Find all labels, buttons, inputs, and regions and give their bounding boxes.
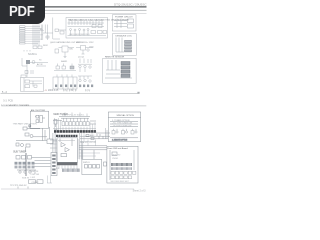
svg-text:- VS TYPE TUNER USE: - VS TYPE TUNER USE (112, 125, 132, 127)
svg-text:AM OSC/TRM: AM OSC/TRM (31, 109, 45, 112)
svg-text:IF OUT: IF OUT (90, 132, 97, 134)
svg-text:C105 103: C105 103 (31, 174, 41, 176)
svg-text:2. REMOTE OPTION: 2. REMOTE OPTION (112, 140, 128, 142)
svg-text:TP1 TP2 GND 5V: TP1 TP2 GND 5V (10, 185, 27, 187)
svg-text:Front OSD unit Board: Front OSD unit Board (108, 147, 129, 150)
svg-text:D601 LED: D601 LED (112, 154, 121, 156)
svg-text:KA431: KA431 (61, 60, 68, 63)
svg-text:T4: T4 (39, 59, 42, 61)
svg-text:DEGAUSS COIL: DEGAUSS COIL (116, 34, 133, 37)
svg-text:S601 S603 S605 S607: S601 S603 S605 S607 (111, 181, 129, 183)
svg-text:2003.3.25: 2003.3.25 (48, 90, 59, 92)
svg-text:Q1 Q2: Q1 Q2 (78, 57, 85, 59)
svg-text:5-3. PCB: 5-3. PCB (3, 99, 13, 102)
svg-text:- PLL TYPE TUNER USE: - PLL TYPE TUNER USE (112, 123, 133, 125)
svg-text:1. TUNER OPTION: 1. TUNER OPTION (112, 120, 130, 122)
svg-text:C85: C85 (69, 48, 74, 50)
svg-text:SDA SCL +5V +B: SDA SCL +5V +B (80, 141, 96, 144)
svg-text:THIS PART USE OPTION: THIS PART USE OPTION (13, 123, 38, 126)
svg-text:SUB TUNER: SUB TUNER (13, 152, 27, 154)
svg-text:NC/Rxx: NC/Rxx (28, 52, 38, 56)
svg-text:CN102: CN102 (32, 182, 40, 184)
svg-text:R801 R803 R805 C801 C803 C80: R801 R803 R805 C801 C803 C805 L801 (69, 20, 103, 22)
svg-text:Sheet 2 of 3: Sheet 2 of 3 (133, 189, 147, 192)
svg-text:AC IN: AC IN (37, 63, 43, 66)
svg-text:CN101: CN101 (112, 158, 119, 160)
svg-text:SUB 3V: SUB 3V (22, 178, 30, 180)
svg-text:ly ly | ly M | ly: ly ly | ly M | ly (63, 90, 77, 92)
svg-text:5-2: 5-2 (56, 168, 60, 170)
svg-text:AGC RF IF B+ BT SDA SCL: AGC RF IF B+ BT SDA SCL (62, 114, 84, 117)
svg-text:L102: L102 (31, 177, 36, 179)
svg-text:Q801 Q803 Q805 IC801: Q801 Q803 Q805 IC801 (69, 34, 90, 36)
svg-text:D605: D605 (89, 46, 95, 48)
svg-text:R612: R612 (43, 45, 49, 47)
svg-text:POWER CIRCUIT: POWER CIRCUIT (115, 16, 133, 18)
svg-text:SW101: SW101 (83, 162, 90, 164)
svg-text:DTQ-29U1SC / 29U5SC: DTQ-29U1SC / 29U5SC (114, 3, 147, 7)
svg-text:REMOTE SENSOR: REMOTE SENSOR (105, 56, 125, 58)
svg-text:R101 1K: R101 1K (31, 171, 39, 173)
svg-text:POWER B+ 125V: POWER B+ 125V (77, 42, 94, 44)
svg-text:AGC: AGC (90, 134, 95, 137)
svg-text:SPECIAL OPTION: SPECIAL OPTION (117, 114, 135, 117)
svg-text:ly | ly: ly | ly (85, 90, 91, 92)
